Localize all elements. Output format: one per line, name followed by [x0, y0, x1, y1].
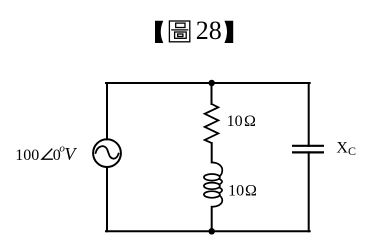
- wires: outer rectangle pieces: [106, 83, 310, 231]
- wire middle branch: resistor to inductor: [211, 143, 213, 162]
- top wire: [106, 82, 310, 84]
- AC source V1 circle: [93, 139, 121, 167]
- wire left branch upper: [106, 83, 108, 139]
- resistor R 10ohm zigzag: [205, 104, 219, 143]
- left lenticular bracket 【: [155, 21, 163, 43]
- AC source sine wave: [96, 146, 119, 159]
- svg-text:10Ω: 10Ω: [228, 182, 257, 199]
- wire middle branch: inductor to bottom: [211, 207, 213, 231]
- svg-text:10Ω: 10Ω: [227, 113, 256, 130]
- svg-text:V: V: [64, 144, 77, 164]
- svg-text:28: 28: [196, 16, 222, 45]
- svg-text:XC: XC: [336, 140, 356, 159]
- CJK glyph 圖 drawn with strokes: [169, 21, 189, 42]
- wire left branch lower: [106, 167, 108, 231]
- junction node top: [208, 80, 215, 87]
- svg-text:100: 100: [15, 147, 39, 164]
- source label 100∠0°V: [15, 142, 77, 164]
- bottom wire: [106, 230, 310, 232]
- wire middle branch: top to resistor: [211, 83, 213, 104]
- angle symbol ∠: [42, 149, 53, 160]
- title 【圖 28】: [155, 16, 233, 45]
- wire right branch lower: [308, 152, 310, 231]
- inductor L 10ohm coil: [204, 162, 222, 206]
- junction node bottom: [208, 228, 215, 235]
- wire right branch upper: [308, 83, 310, 146]
- capacitor XC plates: [292, 146, 324, 153]
- right lenticular bracket 】: [224, 21, 233, 43]
